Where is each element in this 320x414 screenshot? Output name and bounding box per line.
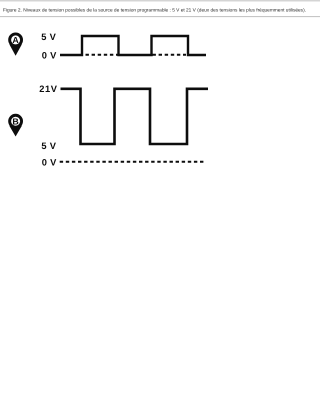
marker pin B — [9, 115, 22, 136]
waveform A dashed 0V baseline under pulse 1 — [86, 54, 119, 56]
top rule — [0, 0, 320, 2]
waveform A trace — [60, 36, 206, 55]
svg-text:5 V: 5 V — [41, 141, 56, 151]
bottom rule — [0, 16, 320, 18]
svg-text:B: B — [12, 116, 18, 126]
svg-text:0 V: 0 V — [42, 50, 57, 60]
svg-text:Figure 2. Niveaux de tension p: Figure 2. Niveaux de tension possibles d… — [3, 8, 306, 13]
svg-text:0 V: 0 V — [42, 157, 57, 167]
svg-text:5 V: 5 V — [41, 32, 56, 42]
marker pin A — [9, 34, 22, 56]
waveform B dashed 0V baseline — [60, 161, 205, 163]
svg-text:A: A — [12, 35, 19, 45]
svg-text:21V: 21V — [39, 84, 58, 94]
waveform A dashed 0V baseline under pulse 2 — [153, 54, 187, 56]
waveform B trace — [61, 89, 209, 144]
